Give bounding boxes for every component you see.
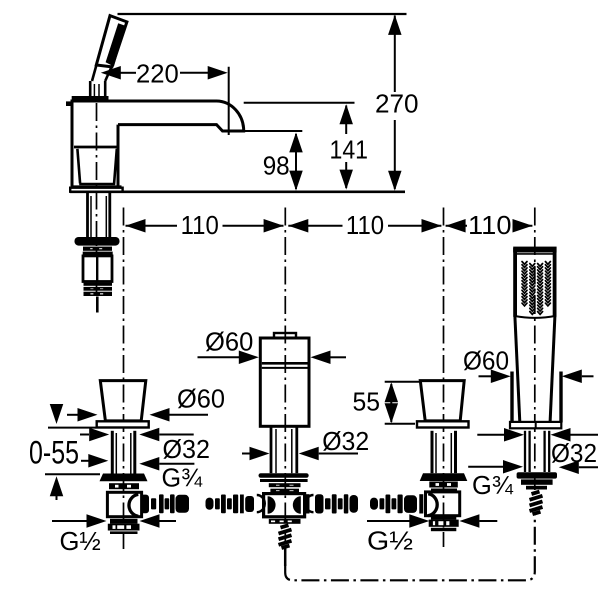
middle valve body double line [262,362,308,365]
right valve bottom nut [429,520,459,527]
svg-text:270: 270 [375,89,419,119]
faucet band [84,283,113,286]
faucet mounting flange [75,237,120,246]
hand shower lower escutcheon [517,472,557,478]
right valve shank threads [431,431,434,473]
svg-text:Ø32: Ø32 [163,434,211,464]
right valve flange [420,473,468,481]
faucet tail pipe [96,297,99,313]
middle valve flange [259,473,309,478]
tick line 98 [244,130,303,132]
centerline hole 1 [123,208,125,550]
dim 0-55 [56,405,58,421]
right valve dim arrows G½ [367,520,410,522]
hand shower dim arrows G¾ [468,466,504,468]
top reference line [118,13,407,15]
right valve body block [426,492,460,516]
middle valve dim arrows Ø32 [242,453,250,455]
middle valve body [260,338,309,426]
faucet body and spout outline [72,101,244,191]
hand shower base plate [510,422,561,428]
left valve dim arrows Ø32 [80,434,89,436]
centerline hole 2 [284,208,286,545]
dim 110 third [446,219,466,233]
right valve base plate [417,421,469,427]
hand shower handle taper [515,316,520,422]
centerline hole 3 [443,208,445,548]
svg-text:110: 110 [468,210,512,240]
faucet body bottom line [72,185,122,187]
dim 55 right valve [385,381,419,383]
svg-text:Ø60: Ø60 [463,346,509,376]
right valve handle [420,381,464,421]
dim 98 line [295,134,297,189]
left valve body block [107,492,141,516]
hose chain middle-valve to right-valve [306,495,314,512]
hand shower spray face [522,262,550,315]
right valve seat arc [428,494,437,516]
faucet body left tab [66,101,72,106]
faucet lever stem [89,81,92,97]
svg-text:Ø32: Ø32 [322,426,369,456]
hand shower holder socket walls [510,372,513,423]
faucet shank threads [86,193,89,238]
faucet upper nut [83,247,112,251]
middle valve top nut [269,483,301,487]
middle valve top tab [274,333,296,338]
svg-text:Ø32: Ø32 [551,438,597,468]
middle valve body block [264,494,305,517]
dim 110 second [288,219,308,233]
middle valve hose drop [284,546,287,566]
left valve flange [100,474,148,482]
svg-text:Ø60: Ø60 [205,326,253,356]
right valve top nut [429,482,458,488]
svg-text:220: 220 [136,58,179,88]
hand shower dim arrows Ø32 [477,434,505,436]
left valve bottom nut [108,524,140,531]
hand shower hose coil [530,492,543,515]
faucet body interior line [74,146,119,149]
svg-text:G½: G½ [60,526,101,556]
svg-text:110: 110 [346,210,384,240]
centerline hole 4 [534,208,536,491]
hand shower dim arrows Ø60 [479,375,493,377]
svg-text:0-55: 0-55 [29,435,79,471]
faucet stem base plate [72,96,109,101]
middle valve bottom band [269,519,301,524]
left valve top nut [109,483,139,489]
left valve bottom band [110,519,138,524]
svg-text:98: 98 [263,150,290,180]
middle valve dim arrows Ø60 [198,356,240,358]
svg-text:Ø60: Ø60 [177,384,225,414]
left valve handle [100,381,146,421]
hose chain left-valve to middle-valve [141,495,150,514]
faucet lever black stripe [106,23,126,66]
faucet lower nut [84,287,113,291]
deck reference line [70,191,405,194]
left valve seat arc [129,494,138,516]
dim 141 line [345,106,347,135]
faucet lever handle [96,16,127,67]
svg-text:55: 55 [353,386,381,416]
svg-text:110: 110 [181,210,219,240]
left valve dim arrows G¾ [81,460,89,462]
faucet interior cone [77,149,80,184]
svg-text:G½: G½ [367,526,413,556]
svg-text:G¾: G¾ [472,470,513,500]
dim 110 first [126,219,146,233]
svg-text:G¾: G¾ [162,462,203,492]
faucet base plate [70,188,122,192]
dim 220 extension line [228,67,230,135]
dim 220 [101,66,121,80]
left valve dim arrows G½ [52,520,87,522]
svg-text:141: 141 [330,135,369,165]
left valve dim arrows Ø60 [67,414,79,416]
hand shower shank threads [524,431,526,472]
middle valve hose coil [279,525,292,548]
tick line 141 [244,102,355,104]
faucet cartridge [83,256,112,282]
middle valve seat blobs [268,496,276,514]
dim 270 line [394,16,396,93]
middle valve shank threads [270,426,273,473]
hand shower head [513,247,556,317]
left valve base plate [97,421,149,427]
left valve shank threads [111,431,114,474]
right valve bottom band [431,516,456,520]
centerline faucet [96,103,98,296]
hose path to shower [285,514,535,580]
